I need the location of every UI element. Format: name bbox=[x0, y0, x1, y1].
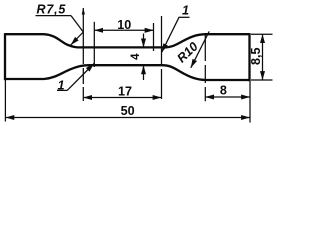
specimen right end edge bbox=[248, 33, 250, 81]
R7,5 leader segment B with arrow to fillet bbox=[71, 32, 84, 45]
50-dim left extension bbox=[4, 80, 6, 122]
4-dim lower arrow line bbox=[143, 65, 145, 80]
8.5-dim bottom extension bbox=[251, 79, 273, 81]
dimension line 17 (parallel section) bbox=[83, 97, 161, 99]
gauge mark line V4 (right outer, 17-dim right extension) bbox=[161, 16, 163, 102]
svg-text:4: 4 bbox=[130, 53, 142, 60]
svg-text:1: 1 bbox=[182, 4, 189, 18]
dimension line 8,5 (end width) bbox=[262, 34, 264, 80]
specimen outline bottom edge with left R7.5 fillet and right R10 fillet bbox=[5, 65, 250, 80]
specimen outline top edge with left R7.5 fillet and right R10 fillet bbox=[5, 34, 250, 47]
left 1 underline bbox=[57, 89, 67, 91]
svg-text:10: 10 bbox=[117, 18, 131, 32]
svg-text:8: 8 bbox=[220, 83, 227, 97]
50-dim right extension bbox=[249, 81, 251, 123]
dimension line 50 (overall length) bbox=[5, 117, 250, 119]
dimension line 10 (gauge length) bbox=[94, 29, 153, 31]
svg-text:50: 50 bbox=[121, 104, 135, 118]
8.5-dim top extension bbox=[251, 33, 273, 35]
left 1 leader with arrow to gauge line bbox=[67, 64, 94, 91]
specimen left end edge bbox=[4, 33, 6, 80]
R7,5 leader segment A bbox=[71, 16, 83, 32]
4-dim upper arrow line bbox=[143, 34, 145, 48]
right 1 underline bbox=[179, 16, 190, 18]
gauge mark line V2 (left inner, 10-dim left extension) bbox=[93, 22, 95, 67]
R10 radial leader with arrow bbox=[191, 31, 209, 67]
8-dim left extension from R10 tangent point bbox=[204, 33, 206, 101]
10-dim right extension V3 bbox=[153, 23, 155, 51]
svg-text:17: 17 bbox=[118, 84, 132, 98]
right 1 leader with arrow to gauge line bbox=[162, 17, 179, 52]
dimension line 8 (grip length) bbox=[205, 96, 250, 98]
svg-text:R7,5: R7,5 bbox=[37, 3, 67, 17]
svg-text:8,5: 8,5 bbox=[249, 48, 263, 66]
gauge mark line V1 (left outer, 17-dim left extension) with small up arrow at top bbox=[82, 8, 84, 101]
R7,5 leader shelf underline bbox=[36, 15, 72, 17]
